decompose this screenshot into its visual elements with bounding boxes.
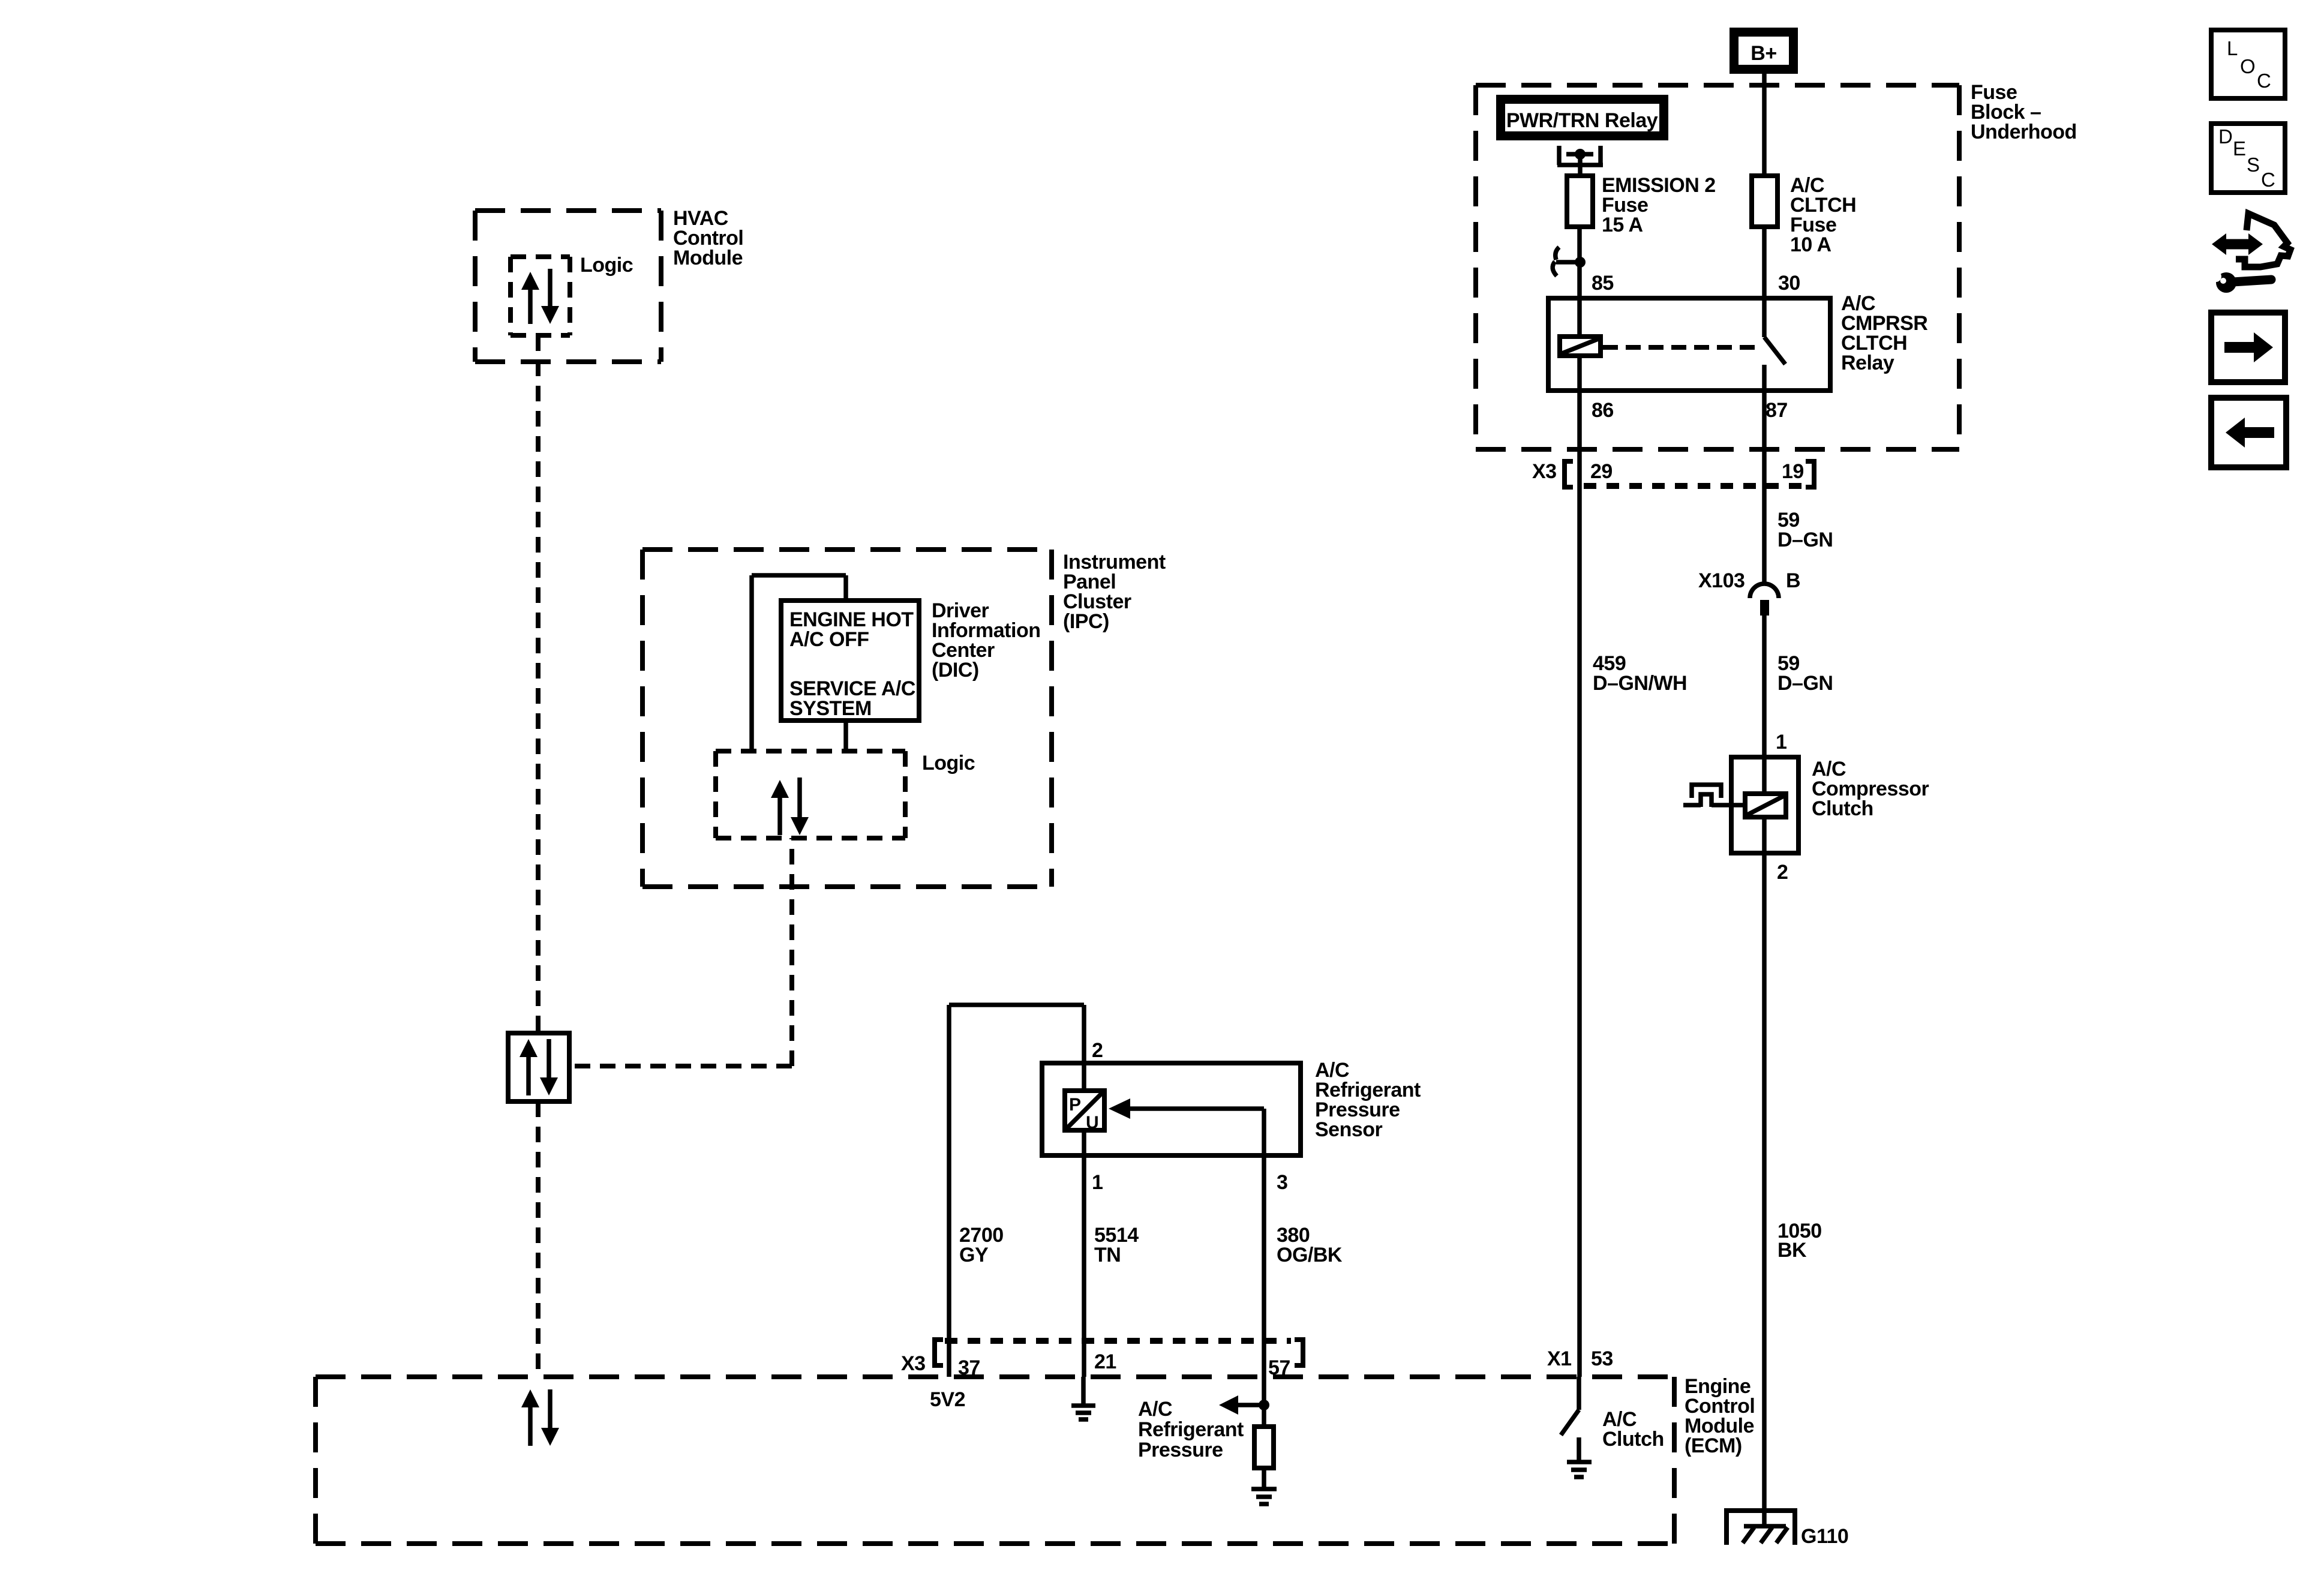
- svg-text:1: 1: [1776, 731, 1786, 754]
- svg-text:B: B: [1786, 569, 1800, 592]
- fuse EMISSION 2 15 A: [1567, 174, 1716, 236]
- svg-text:X3: X3: [901, 1352, 926, 1375]
- wire DIC loop to logic: [752, 575, 846, 751]
- svg-text:OG/BK: OG/BK: [1277, 1244, 1343, 1266]
- ECM logic arrows: [521, 1389, 559, 1446]
- dashed wire IPC to interface box: [571, 838, 792, 1066]
- svg-text:87: 87: [1765, 399, 1788, 422]
- svg-text:Logic: Logic: [580, 254, 633, 277]
- svg-text:A/C: A/C: [1138, 1398, 1172, 1421]
- svg-text:(DIC): (DIC): [932, 659, 979, 682]
- svg-text:86: 86: [1592, 399, 1614, 422]
- svg-text:D–GN: D–GN: [1777, 672, 1833, 695]
- wire B+ to fuse: [1762, 74, 1767, 176]
- svg-text:X103: X103: [1698, 569, 1744, 592]
- A/C Compressor Clutch box: [1731, 757, 1929, 853]
- Instrument Panel Cluster dashed box: [642, 550, 1166, 887]
- svg-text:U: U: [1086, 1113, 1098, 1133]
- svg-text:(IPC): (IPC): [1063, 610, 1109, 633]
- svg-text:2: 2: [1777, 861, 1788, 884]
- svg-text:PWR/TRN Relay: PWR/TRN Relay: [1506, 109, 1658, 132]
- svg-text:C: C: [2257, 70, 2271, 92]
- wire DIC bottom to logic: [843, 721, 848, 751]
- relay internal dashed link: [1603, 345, 1759, 350]
- Driver Information Center box: [781, 599, 1040, 721]
- svg-text:Logic: Logic: [922, 752, 975, 775]
- svg-text:Pressure: Pressure: [1138, 1439, 1223, 1461]
- spur hook symbol: [1553, 247, 1580, 276]
- svg-text:21: 21: [1094, 1350, 1116, 1373]
- dashed wire interface box to ECM: [536, 1101, 541, 1377]
- svg-text:TN: TN: [1094, 1244, 1121, 1266]
- ECM A/C clutch switch: [1561, 1377, 1664, 1462]
- svg-text:1: 1: [1092, 1171, 1103, 1194]
- wire sensor pin 2: [1082, 1005, 1086, 1093]
- wire label 5514 TN: [1094, 1224, 1139, 1266]
- svg-text:10 A: 10 A: [1790, 233, 1831, 256]
- IPC logic arrows: [771, 778, 809, 835]
- wire 459 relay pin 86 to ECM pin 53: [1577, 391, 1582, 1377]
- ground G110: [1727, 1511, 1848, 1548]
- svg-text:29: 29: [1590, 460, 1613, 483]
- svg-text:E: E: [2233, 137, 2246, 160]
- svg-text:Refrigerant: Refrigerant: [1138, 1418, 1244, 1441]
- wire fuse to relay pin 85: [1577, 227, 1582, 298]
- icon back arrow: [2211, 398, 2286, 467]
- relay A/C CMPRSR CLTCH box: [1548, 292, 1927, 391]
- svg-text:D–GN: D–GN: [1777, 529, 1833, 551]
- svg-text:GY: GY: [959, 1244, 989, 1266]
- icon LOC: [2211, 30, 2285, 98]
- svg-text:SYSTEM: SYSTEM: [789, 697, 872, 720]
- A/C Refrigerant Pressure Sensor box: [1042, 1059, 1421, 1155]
- wire fuse to relay pin 30: [1762, 227, 1767, 298]
- connector X3 fuse block: [1532, 460, 1814, 487]
- wire 59 relay pin 87 to X103: [1762, 391, 1767, 583]
- svg-text:BK: BK: [1777, 1239, 1807, 1262]
- serial data interface box: [508, 1033, 569, 1101]
- wire label 380 OG/BK: [1277, 1224, 1343, 1266]
- ECM pin 57 node: [1138, 1377, 1269, 1461]
- wire 1050 clutch pin 2 to G110: [1762, 853, 1767, 1526]
- wire label 1050 BK: [1777, 1220, 1822, 1262]
- svg-text:53: 53: [1591, 1347, 1613, 1370]
- clutch coil: [1745, 757, 1786, 853]
- clutch plates symbol: [1683, 785, 1745, 807]
- svg-text:P: P: [1069, 1095, 1081, 1115]
- icon component view: [2211, 214, 2290, 293]
- svg-text:Sensor: Sensor: [1315, 1118, 1383, 1141]
- svg-text:2: 2: [1092, 1039, 1103, 1062]
- svg-text:X1: X1: [1547, 1347, 1572, 1370]
- relay switch contact: [1764, 298, 1785, 391]
- svg-text:Clutch: Clutch: [1602, 1428, 1664, 1451]
- svg-text:D–GN/WH: D–GN/WH: [1593, 672, 1687, 695]
- Engine Control Module dashed box: [316, 1375, 1755, 1544]
- wire label 59 D-GN lower: [1777, 652, 1833, 695]
- icon DESC: [2211, 124, 2285, 193]
- ECM ground pin 21: [1071, 1377, 1095, 1419]
- wire sensor pin 1: [1082, 1130, 1086, 1377]
- ECM ground clutch switch: [1567, 1462, 1592, 1477]
- HVAC logic arrows: [521, 269, 559, 324]
- svg-text:Underhood: Underhood: [1971, 121, 2077, 143]
- wire label 59 D-GN upper: [1777, 509, 1833, 551]
- svg-text:X3: X3: [1532, 460, 1557, 483]
- wire label 2700 GY: [959, 1224, 1004, 1266]
- svg-text:85: 85: [1592, 272, 1614, 295]
- svg-text:Module: Module: [673, 247, 743, 269]
- svg-text:3: 3: [1277, 1171, 1287, 1194]
- HVAC Control Module dashed box: [475, 207, 743, 362]
- IPC logic dashed box: [716, 751, 975, 838]
- wire 59 X103 to clutch pin 1: [1762, 616, 1767, 757]
- sensor feedback arrow: [1109, 1098, 1264, 1119]
- P/U transducer symbol: [1065, 1091, 1104, 1133]
- svg-text:O: O: [2240, 55, 2255, 77]
- fuse A/C CLTCH 10 A: [1752, 174, 1856, 256]
- wire sensor 5V top loop: [949, 1005, 1084, 1377]
- wire sensor pin 3: [1262, 1109, 1266, 1377]
- svg-text:15 A: 15 A: [1602, 214, 1643, 236]
- svg-text:Clutch: Clutch: [1812, 797, 1873, 820]
- svg-text:C: C: [2261, 169, 2275, 191]
- battery feed B+: [1730, 28, 1798, 74]
- svg-text:(ECM): (ECM): [1685, 1434, 1742, 1457]
- svg-text:D: D: [2218, 125, 2232, 148]
- svg-text:S: S: [2247, 154, 2260, 176]
- svg-text:L: L: [2227, 37, 2238, 59]
- connector X103 terminal B: [1698, 569, 1800, 616]
- ECM ground pin 57: [1251, 1489, 1277, 1504]
- connector X1 labels: [1547, 1347, 1613, 1370]
- svg-text:Relay: Relay: [1841, 352, 1894, 374]
- HVAC logic dashed box: [511, 254, 633, 335]
- svg-text:G110: G110: [1801, 1525, 1848, 1548]
- Fuse Block - Underhood dashed box: [1476, 81, 2077, 449]
- junction dot pin 85 wire: [1575, 257, 1586, 268]
- svg-text:5V2: 5V2: [930, 1388, 965, 1411]
- relay coil feed symbol: [1557, 146, 1603, 176]
- svg-text:19: 19: [1782, 460, 1804, 483]
- connector X3 ECM: [901, 1340, 1303, 1379]
- svg-text:A/C OFF: A/C OFF: [789, 628, 869, 651]
- dashed wire HVAC to interface box: [536, 335, 541, 1033]
- icon forward arrow: [2211, 313, 2285, 382]
- svg-text:30: 30: [1778, 272, 1800, 295]
- svg-text:B+: B+: [1750, 42, 1776, 65]
- PWR/TRN Relay label box: [1496, 95, 1668, 140]
- ECM internal resistor: [1254, 1427, 1274, 1489]
- relay coil: [1560, 298, 1601, 391]
- wire label 459 D-GN/WH: [1593, 652, 1687, 695]
